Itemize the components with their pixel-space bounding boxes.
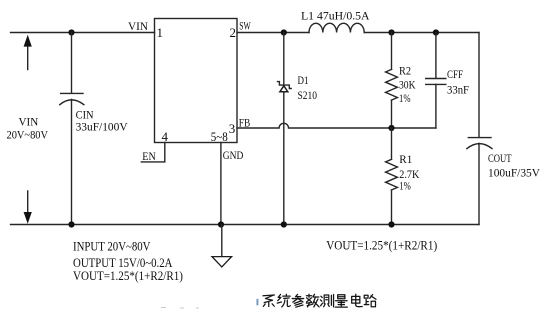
arrow: input current up-arrow [24, 35, 32, 70]
svg-text:S210: S210 [298, 88, 318, 102]
svg-text:3: 3 [229, 121, 236, 136]
node: input junction with CIN [68, 29, 74, 35]
wire: FB line with hop over diode branch [237, 123, 436, 128]
hanzi 统 [277, 294, 290, 307]
node: L1 output to R2 [388, 29, 394, 35]
wire: top rail left (VIN input to pin 1) [11, 32, 155, 34]
svg-text:100uF/35V: 100uF/35V [488, 165, 540, 179]
node: FB junction R2/R1 [388, 125, 394, 131]
svg-text:R1: R1 [399, 152, 412, 166]
hanzi 量 [335, 295, 347, 307]
diode D1 branch wire top [283, 33, 285, 85]
svg-text:VIN: VIN [19, 115, 39, 129]
op-amp U1 (regulator IC body) [155, 19, 238, 143]
wire: GND pin down [220, 143, 222, 225]
resistor R2 [386, 33, 398, 129]
svg-text:VOUT=1.25*(1+R2/R1): VOUT=1.25*(1+R2/R1) [326, 238, 437, 253]
svg-text:L1 47uH/0.5A: L1 47uH/0.5A [301, 9, 370, 23]
hanzi 测 [320, 294, 333, 306]
svg-text:VOUT=1.25*(1+R2/R1): VOUT=1.25*(1+R2/R1) [73, 268, 183, 283]
svg-text:33uF/100V: 33uF/100V [76, 120, 128, 134]
decorative faint marks [161, 307, 199, 310]
node: output to CFF [433, 29, 439, 35]
svg-text:R2: R2 [399, 64, 411, 78]
capacitor CIN branch wire top [71, 33, 73, 94]
capacitor CIN [60, 93, 84, 224]
svg-text:SW: SW [239, 18, 251, 32]
capacitor COUT [467, 138, 492, 225]
svg-text:30K: 30K [399, 77, 416, 91]
hanzi 参 [292, 294, 304, 307]
wire: bottom rail [11, 224, 480, 226]
diode branch wire bottom [283, 92, 285, 225]
arrow: input return down-arrow [24, 191, 32, 224]
node: bottom rail R1 [388, 221, 394, 227]
svg-text:INPUT 20V~80V: INPUT 20V~80V [73, 239, 151, 254]
svg-text:33nF: 33nF [447, 82, 469, 96]
hanzi 电 [352, 294, 363, 306]
svg-text:D1: D1 [298, 73, 309, 87]
svg-text:1: 1 [157, 25, 164, 40]
hanzi 数 [306, 294, 319, 307]
hanzi 系 [263, 295, 274, 307]
wire: right vertical to COUT top [478, 33, 480, 138]
wire: SW pin 2 to inductor [237, 32, 309, 34]
svg-text:EN: EN [142, 149, 156, 163]
resistor R1 [386, 128, 398, 225]
blue tick before title [256, 299, 258, 306]
node: SW junction to diode [281, 29, 287, 35]
wire: inductor to output corner [364, 32, 479, 34]
svg-text:2: 2 [230, 25, 237, 40]
ground symbol [212, 225, 232, 267]
title: 系统参数测量电路 (drawn strokes) [263, 294, 376, 307]
svg-text:GND: GND [223, 148, 244, 162]
node: bottom rail diode [281, 221, 287, 227]
diode D1 (schottky) [278, 82, 292, 92]
svg-text:5~8: 5~8 [211, 129, 228, 144]
hanzi 路 [364, 294, 376, 306]
svg-text:CFF: CFF [447, 67, 463, 81]
inductor L1 [309, 23, 364, 32]
svg-text:VIN: VIN [128, 19, 148, 33]
svg-text:1%: 1% [399, 178, 411, 192]
svg-text:COUT: COUT [488, 151, 512, 165]
wire: EN pin 4 down and left [141, 143, 165, 162]
node: bottom rail GND [218, 221, 224, 227]
svg-text:1%: 1% [399, 91, 411, 105]
svg-text:20V~80V: 20V~80V [7, 128, 49, 142]
node: bottom rail CIN [68, 221, 74, 227]
capacitor CFF [426, 33, 446, 129]
